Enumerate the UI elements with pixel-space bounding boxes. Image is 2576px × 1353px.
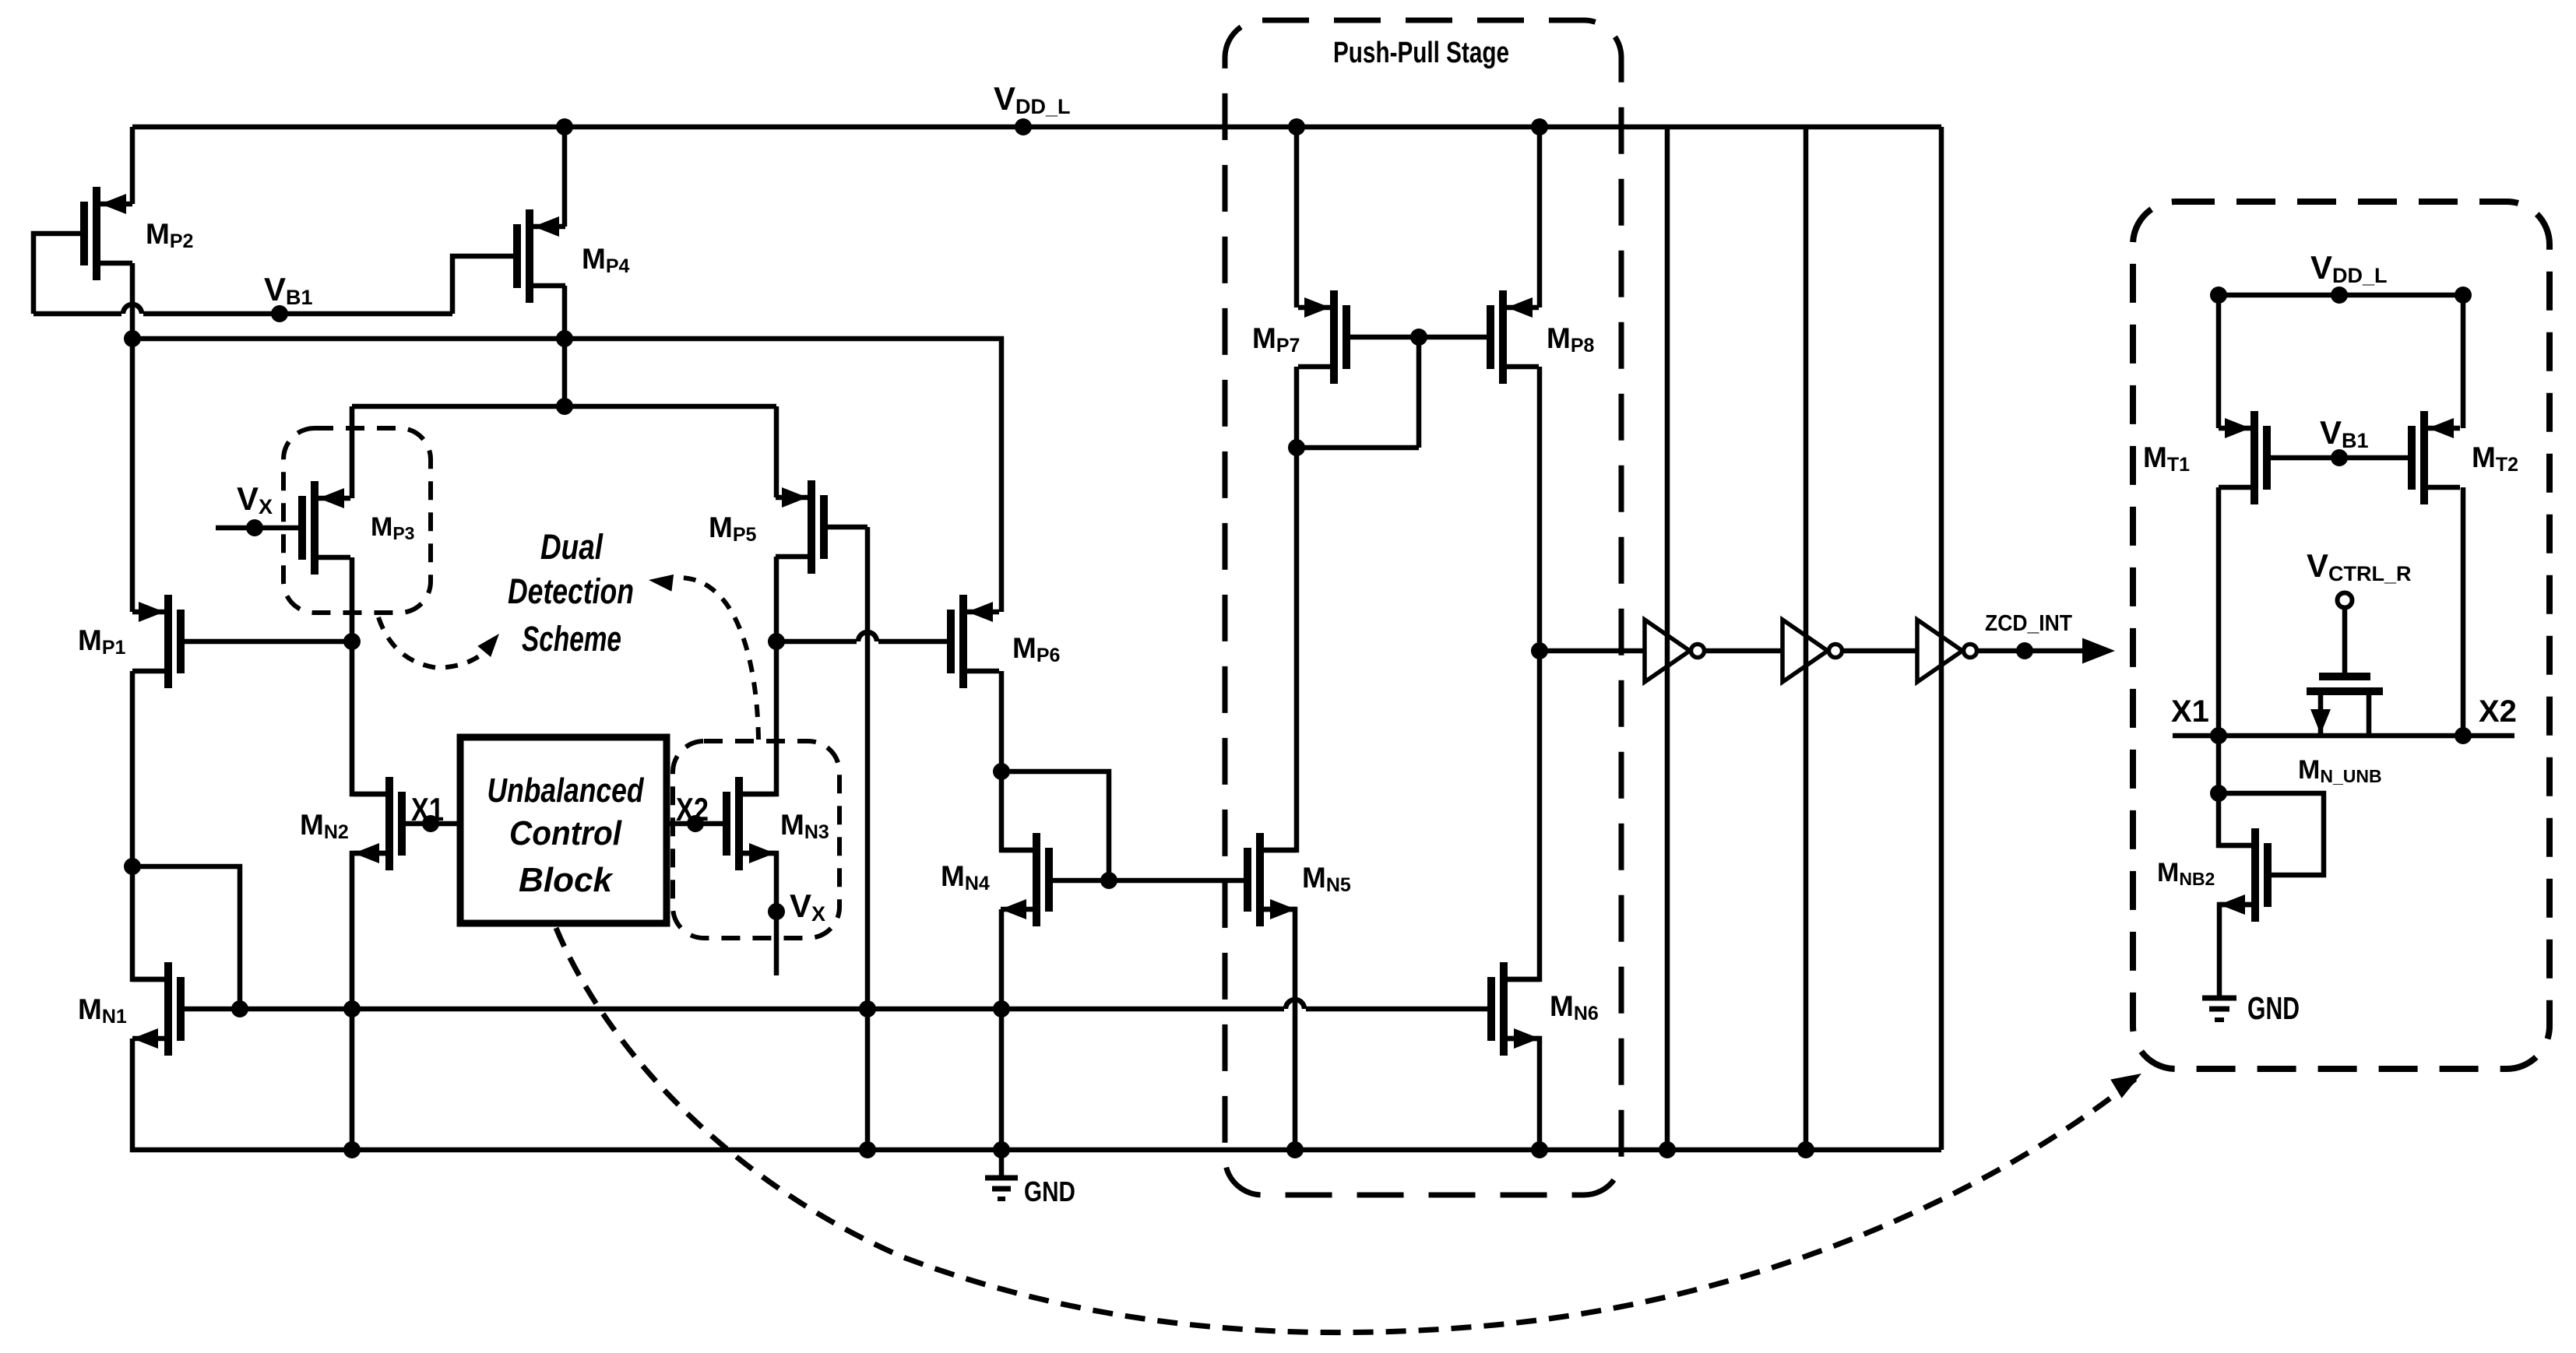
wire MT2 source riser (2461, 295, 2466, 428)
dashed box Dual Detection (MP3) (283, 428, 431, 613)
node VB1 right dot (2331, 449, 2348, 466)
dashed arrow from Detection to X2 block (674, 578, 758, 740)
junction rail MN5 source (1286, 1141, 1304, 1158)
svg-text:ZCD_INT: ZCD_INT (1985, 611, 2072, 636)
transistor MP2 (84, 187, 132, 280)
wire MP5 gate down column (824, 525, 867, 530)
junction gate line b (343, 1000, 361, 1017)
junction rail MP5 col (859, 1141, 876, 1158)
junction gate line d (993, 1000, 1010, 1017)
wire MP1 drain to MN1 drain (132, 671, 168, 979)
svg-text:X1: X1 (2171, 694, 2209, 729)
transistor MNB2 (2219, 828, 2268, 922)
wire MN_UNB left lead (2318, 691, 2324, 736)
wire MNB2 gate loop (2219, 793, 2324, 875)
wire MT1-MT2 gate line VB1 (2267, 455, 2412, 461)
node Vx dot left (246, 519, 263, 536)
svg-text:Control: Control (509, 814, 622, 852)
wire MN3 gate to X2 (667, 821, 727, 827)
junction VDD right a (2210, 286, 2227, 304)
transistor MN_UNB (2307, 676, 2383, 734)
wire MN5 source down (1260, 909, 1295, 1150)
wire MT1 source riser (2216, 295, 2222, 428)
transistor MT2 (2412, 411, 2460, 504)
block Unbalanced Control Block (460, 737, 667, 923)
svg-text:Block: Block (519, 861, 614, 899)
wire inverter column 3 (1939, 127, 1944, 1150)
dashed box Push-Pull Stage (1225, 20, 1621, 1195)
svg-text:Scheme: Scheme (522, 619, 621, 659)
transistor MP5 (776, 480, 824, 574)
node X2 dot (687, 815, 704, 832)
wire MP4 drain down (562, 286, 568, 406)
junction X1 right (2210, 727, 2227, 744)
node VDD_L right dot (2331, 286, 2348, 304)
node X1 dot (422, 815, 439, 832)
dashed box replica bias right (2133, 202, 2550, 1069)
output arrow ZCD_INT (2082, 638, 2115, 664)
node VB1 wire (33, 311, 121, 317)
junction rail MN6 source (1531, 1141, 1548, 1158)
wire inverter column 1 (1665, 127, 1670, 1150)
wire MT1 drain to X1 (2216, 487, 2222, 736)
terminal VCTRL_R (2338, 593, 2353, 608)
inverter U3 (1917, 620, 1962, 682)
svg-text:GND: GND (2247, 990, 2300, 1026)
svg-text:Push-Pull Stage: Push-Pull Stage (1333, 37, 1509, 69)
transistor MP6 (951, 595, 999, 688)
wire MP7 drain to MN5 drain (1260, 367, 1297, 850)
wire hop MP6 gate over MP5 gate column (858, 632, 877, 641)
svg-text:Detection: Detection (508, 571, 634, 611)
wire MN_UNB right lead (2367, 691, 2372, 736)
transistor MN1 (132, 962, 181, 1056)
wire MP6 drain to MN4 drain (1001, 671, 1036, 850)
junction MN4 gate (1100, 872, 1117, 889)
junction MP1 gate / MP3 drain (343, 633, 361, 650)
wire VDD_L top rail (132, 125, 1941, 130)
ground main (999, 1150, 1005, 1178)
wire output to inverter 1 (1540, 648, 1645, 654)
junction MP4 rail2 (556, 330, 573, 347)
wire MP2 gate loop (33, 234, 84, 314)
wire hop VB1 over MP2 drain (123, 304, 142, 314)
wire MN4 source down (999, 909, 1005, 1150)
junction rail2 left (124, 330, 141, 347)
dashed arrow to Scheme label (378, 617, 494, 668)
wire X1-X2 line (2173, 733, 2514, 739)
wire MP6 gate line (776, 639, 857, 645)
wire MP8 source to rail (1537, 127, 1543, 307)
wire MP3 source riser (350, 406, 355, 498)
svg-text:GND: GND (1024, 1176, 1075, 1207)
wire MP7 diode link (1416, 337, 1422, 448)
junction MP7 MP8 gates (1410, 329, 1427, 346)
transistor MP7 (1298, 290, 1346, 384)
transistor MP8 (1490, 290, 1539, 384)
svg-text:X1: X1 (411, 791, 444, 828)
junction output node (1531, 642, 1548, 659)
junction gate line c (859, 1000, 876, 1017)
wire MN4-MN5 gate line (1049, 878, 1248, 884)
junction MP8 rail (1531, 118, 1548, 135)
wire MN2 source down (352, 853, 389, 1150)
wire mid line MP3-MP5 sources (352, 404, 776, 409)
node VB1 dot (271, 305, 288, 322)
junction rail inv2 (1797, 1141, 1814, 1158)
wire MP5 source riser (774, 406, 779, 497)
junction rail MN2 source (343, 1141, 361, 1158)
wire MP8 drain to MN6 drain (1504, 367, 1540, 979)
wire MP7 source to rail (1294, 127, 1300, 307)
wire X1 down to MNB2 drain (2219, 736, 2255, 845)
node Vx dot mid (768, 903, 785, 920)
transistor MN6 (1491, 962, 1540, 1056)
svg-text:X2: X2 (2479, 694, 2517, 729)
junction gate line a (231, 1000, 248, 1017)
junction VDD right b (2455, 286, 2472, 304)
node ZCD_INT dot (2016, 642, 2033, 659)
junction rail GND (993, 1141, 1010, 1158)
junction MP7 rail (1288, 118, 1305, 135)
junction MP1 MN1 drains (124, 858, 141, 875)
junction MNB2 tap (2210, 785, 2227, 802)
transistor MP4 (517, 209, 565, 303)
wire inverter2 to inverter3 (1842, 648, 1917, 654)
inverter U1 (1645, 620, 1690, 682)
wire MP1 gate line (181, 639, 352, 645)
wire MP4 gate riser (452, 256, 517, 314)
node VDD_L dot (1015, 118, 1032, 135)
transistor MN4 (1001, 833, 1049, 926)
wire MP2 source to rail (130, 127, 135, 204)
transistor MN3 (727, 777, 775, 870)
wire MP3 drain / MN2 drain (352, 557, 389, 794)
wire hop gate line over MN5 source (1286, 1000, 1304, 1009)
wire inverter1 to inverter2 (1705, 648, 1782, 654)
wire MN1-MN6 gate bias line (181, 1007, 1284, 1012)
dashed box Dual Detection (MN3) (673, 741, 839, 938)
wire MP3 gate lead Vx (216, 525, 302, 531)
svg-text:Unbalanced: Unbalanced (487, 771, 645, 810)
wire MT2 drain to X2 (2461, 487, 2466, 736)
transistor MP3 (302, 481, 350, 575)
junction MP7 diode (1288, 439, 1305, 456)
wire MN1 source / GND bottom rail (132, 1038, 1941, 1150)
junction MP6 drain branch (993, 763, 1010, 780)
wire second rail to MP6 source (132, 339, 1001, 612)
dashed arrow control block to replica circuit (556, 928, 2135, 1333)
junction MP5 drain (768, 633, 785, 650)
wire MP4 source to rail (562, 127, 568, 227)
wire inverter column 2 (1804, 127, 1809, 1150)
wire VDD_L right (2219, 293, 2463, 298)
wire MP7-MP8 gate line (1345, 335, 1490, 340)
wire MN3 source to Vx stub (739, 853, 776, 975)
ground right (2202, 996, 2236, 1001)
wire MN1 gate branch (132, 866, 240, 1009)
wire MN4 gate branch (1001, 771, 1109, 880)
junction MP4 midline (556, 398, 573, 415)
wire MP2 drain down to MP1 source (130, 263, 135, 612)
junction rail inv1 (1659, 1141, 1676, 1158)
transistor MP1 (132, 595, 181, 688)
svg-text:X2: X2 (676, 791, 709, 828)
junction MP4 rail (556, 118, 573, 135)
inverter U2 (1782, 620, 1828, 682)
wire MN2 gate to X1 (402, 821, 460, 827)
wire inverter3 to ZCD_INT (1977, 648, 2089, 654)
transistor MT1 (2219, 411, 2267, 504)
svg-text:Dual: Dual (540, 527, 604, 567)
wire VCTRL_R stem (2342, 607, 2348, 676)
transistor MN5 (1248, 833, 1296, 926)
wire MP5 drain / MN3 drain (739, 557, 776, 794)
wire MN6 source down (1504, 1038, 1540, 1150)
junction X2 right (2455, 727, 2472, 744)
transistor MN2 (354, 777, 402, 870)
wire MNB2 source to GND (2219, 905, 2255, 998)
